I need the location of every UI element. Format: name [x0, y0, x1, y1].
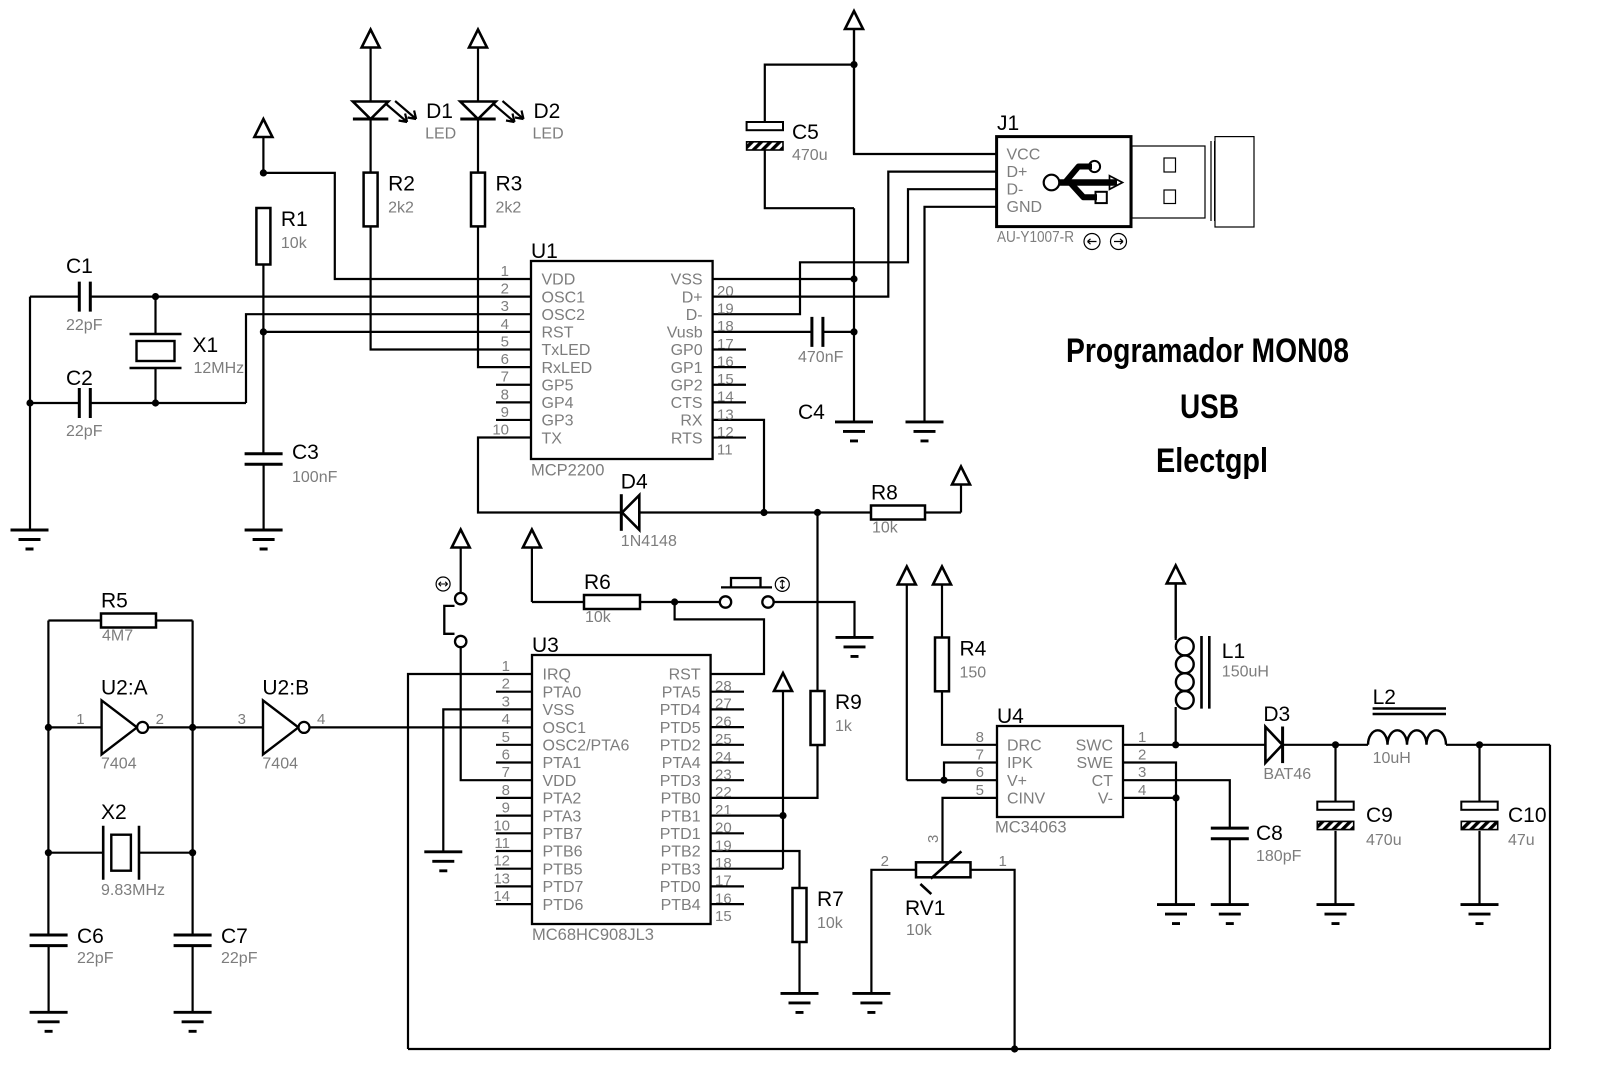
title text: [1066, 332, 1349, 480]
svg-text:TxLED: TxLED: [542, 342, 591, 359]
svg-text:8: 8: [502, 782, 510, 799]
svg-text:D1: D1: [426, 100, 453, 123]
svg-text:18: 18: [715, 855, 732, 872]
wire X1 top lead: [154, 297, 156, 334]
svg-text:C6: C6: [77, 925, 104, 948]
U1 pin 15 (GP1) label: [671, 360, 734, 388]
svg-text:R8: R8: [871, 482, 898, 505]
wire R9 bottom to U3 PTB0 pin 21: [711, 745, 818, 798]
svg-text:10k: 10k: [872, 520, 899, 537]
potentiometer RV1: [881, 835, 1007, 939]
svg-text:11: 11: [494, 835, 510, 852]
wire C10 to ground: [1478, 831, 1480, 905]
U3 pin 14 stub: [496, 903, 532, 905]
J1 left-arrow marker icon: [1084, 234, 1100, 250]
capacitor C1: [66, 255, 103, 334]
U3 pin 11 stub: [496, 850, 532, 852]
U1 pin 18 (D-) label: [686, 307, 734, 335]
capacitor C10 (electrolytic): [1461, 802, 1546, 849]
svg-text:TX: TX: [542, 430, 563, 447]
junction C10 on output node: [1476, 741, 1483, 748]
U1 pin 7 (GP5) label: [501, 369, 574, 395]
svg-text:X1: X1: [193, 334, 219, 357]
U3 pin 13 (PTD7) label: [493, 870, 583, 896]
svg-text:PTB2: PTB2: [661, 844, 701, 861]
connector J1 AU-Y1007-R body: [997, 112, 1131, 246]
svg-text:PTA1: PTA1: [543, 755, 582, 772]
power symbol VCC above R1: [254, 119, 272, 173]
U3 pin 22 (PTD3) label: [660, 773, 732, 801]
svg-text:PTD0: PTD0: [660, 879, 701, 896]
svg-text:PTD4: PTD4: [660, 702, 701, 719]
svg-text:22pF: 22pF: [221, 950, 258, 967]
wire U4 CINV pin 5 to RV1 wiper: [943, 798, 998, 862]
U1 pin 16 (GP0) label: [671, 342, 734, 370]
svg-text:470u: 470u: [1366, 832, 1402, 849]
U1 pin 19 (D+) label: [682, 289, 734, 317]
svg-text:11: 11: [717, 442, 733, 459]
J1 pin D- label: [1007, 182, 1024, 199]
svg-text:6: 6: [502, 747, 510, 764]
wire C4 right plate to ground vertical: [823, 331, 854, 333]
svg-text:D3: D3: [1263, 703, 1290, 726]
ground (C9): [1317, 905, 1355, 924]
svg-text:100nF: 100nF: [292, 469, 338, 486]
U3 pin 9 stub: [496, 814, 532, 816]
svg-text:7: 7: [501, 369, 509, 386]
power symbol VCC above C5/J1: [845, 11, 863, 154]
wire U1 D- pin 18 to J1 D-: [713, 189, 997, 314]
junction X1 top lead on OSC1 net: [152, 293, 159, 300]
junction R1/RST node: [260, 328, 267, 335]
U1 pin 5 (TxLED) label: [501, 333, 591, 359]
wire U2:A input: [48, 726, 101, 728]
U1 pin 14 stub: [713, 384, 746, 386]
wire C9 to ground: [1334, 831, 1336, 905]
svg-text:1: 1: [502, 658, 510, 675]
svg-text:1: 1: [1138, 729, 1146, 746]
U1 pin 6 (RxLED) label: [501, 351, 593, 377]
svg-text:VDD: VDD: [542, 272, 576, 289]
wire C5 positive lead: [765, 65, 854, 122]
svg-text:8: 8: [976, 729, 984, 746]
svg-text:2: 2: [1138, 747, 1146, 764]
wire D2 cathode to R3: [477, 119, 479, 173]
ground (R7): [781, 993, 819, 1012]
wire VCC to R1 top and U1 VDD pin 1: [263, 173, 531, 279]
svg-text:VSS: VSS: [671, 272, 703, 289]
wire U4 CT pin 3 to C8: [1123, 780, 1230, 828]
svg-text:10k: 10k: [817, 915, 844, 932]
svg-text:U2:A: U2:A: [101, 676, 148, 699]
svg-text:USB: USB: [1180, 388, 1239, 426]
svg-text:D-: D-: [1007, 182, 1024, 199]
resistor R8: [871, 482, 925, 537]
wire X2 left lead: [48, 852, 103, 854]
svg-text:13: 13: [717, 406, 734, 423]
J1 USB trident icon: [1044, 161, 1123, 203]
U3 pin 12 stub: [496, 868, 532, 870]
U3 pin 5 (OSC2/PTA6) label: [502, 729, 630, 755]
U3 pin 5 stub: [496, 744, 532, 746]
svg-text:GP1: GP1: [671, 360, 703, 377]
svg-text:PTA2: PTA2: [543, 791, 582, 808]
wire R5 left to U2:A input vertical: [48, 621, 101, 935]
junction X1 bottom lead: [152, 399, 159, 406]
svg-text:CTS: CTS: [671, 395, 703, 412]
capacitor C3: [245, 441, 338, 486]
svg-text:IPK: IPK: [1007, 755, 1033, 772]
capacitor C6: [30, 925, 114, 967]
U1 pin 14 (GP2) label: [671, 377, 734, 405]
svg-text:7404: 7404: [101, 755, 137, 772]
junction RX drop on D4/R8 row: [760, 509, 767, 516]
push button left actuate icon: [436, 577, 450, 591]
svg-text:VSS: VSS: [543, 702, 575, 719]
capacitor C5 (electrolytic): [747, 121, 828, 164]
svg-text:CT: CT: [1092, 773, 1114, 790]
svg-text:180pF: 180pF: [1256, 848, 1302, 865]
svg-text:1k: 1k: [835, 718, 853, 735]
wire R5 right to U2:A output vertical: [156, 621, 193, 935]
svg-text:7404: 7404: [262, 755, 298, 772]
svg-text:4: 4: [1138, 782, 1146, 799]
junction C5 positive on VCC net: [850, 61, 857, 68]
junction U1 VSS row: [850, 275, 857, 282]
svg-text:R5: R5: [101, 590, 128, 613]
svg-text:GP4: GP4: [542, 395, 574, 412]
svg-text:6: 6: [501, 351, 509, 368]
ground (C6): [30, 1012, 68, 1031]
capacitor C9 (electrolytic): [1317, 802, 1401, 849]
junction X2 left lead: [45, 849, 52, 856]
U3 pin 28 (RST) label: [669, 667, 732, 695]
svg-text:PTD2: PTD2: [660, 738, 701, 755]
U3 pin 23 (PTA4) label: [662, 755, 732, 783]
resistor R2: [364, 173, 415, 227]
svg-text:3: 3: [238, 711, 246, 728]
junction U2:A output node: [189, 724, 196, 731]
wire U1 D+ pin 19 to J1 D+: [713, 172, 997, 297]
svg-text:7: 7: [502, 764, 510, 781]
wire R6 right to push button: [640, 601, 720, 603]
svg-text:Electgpl: Electgpl: [1156, 442, 1268, 480]
U3 pin 26 stub: [711, 708, 744, 710]
svg-text:DRC: DRC: [1007, 738, 1042, 755]
svg-text:10: 10: [492, 422, 509, 439]
svg-text:2: 2: [501, 281, 509, 298]
svg-text:3: 3: [501, 298, 509, 315]
ground (C3): [245, 530, 283, 549]
U3 pin 17 (PTB3) label: [661, 861, 732, 889]
junction SWE/V- tie: [1172, 794, 1179, 801]
wire VCC arrow to U4 V+ pin 6: [907, 779, 997, 781]
inductor L1: [1176, 584, 1269, 709]
wire R8 right to VCC arrow: [925, 511, 961, 513]
svg-text:PTB0: PTB0: [661, 791, 701, 808]
svg-text:2: 2: [502, 676, 510, 693]
U4 pin 4 (V-) label: [1098, 782, 1146, 808]
svg-text:13: 13: [493, 870, 510, 887]
svg-text:OSC2: OSC2: [542, 307, 586, 324]
svg-text:RST: RST: [669, 667, 701, 684]
U3 pin 27 stub: [711, 691, 744, 693]
U3 pin 24 stub: [711, 744, 744, 746]
svg-text:AU-Y1007-R: AU-Y1007-R: [997, 229, 1074, 246]
svg-text:14: 14: [493, 888, 510, 905]
svg-text:R2: R2: [388, 173, 415, 196]
U3 pin 1 (IRQ) label: [502, 658, 571, 684]
svg-text:PTA0: PTA0: [543, 684, 582, 701]
wire row node down to R9 top: [816, 513, 818, 692]
wire U4 SWC pin 1 to D3 anode: [1123, 744, 1265, 746]
LED D1: [353, 100, 456, 143]
svg-text:10k: 10k: [281, 235, 308, 252]
svg-text:PTB7: PTB7: [543, 826, 583, 843]
diode D3: [1263, 703, 1311, 783]
wire X1 bottom lead: [154, 368, 156, 403]
wire U1 TX pin 10 to D4 cathode: [478, 438, 621, 513]
wire J1 GND to ground: [925, 207, 997, 422]
U1 pin 11 (RTS) label: [671, 430, 733, 458]
power symbol VCC above R4: [933, 567, 951, 638]
svg-text:R9: R9: [835, 691, 862, 714]
U3 pin 7 (VDD) label: [502, 764, 577, 790]
wire C10 top lead: [1478, 745, 1480, 802]
svg-text:150uH: 150uH: [1222, 664, 1269, 681]
svg-text:U3: U3: [532, 634, 559, 657]
wire L2 right to output corner: [1446, 744, 1550, 746]
svg-text:PTA5: PTA5: [662, 684, 701, 701]
ground (C10): [1461, 905, 1499, 924]
U1 pin 15 stub: [713, 366, 746, 368]
inverter U2:B: [238, 676, 326, 772]
svg-text:U4: U4: [997, 705, 1024, 728]
svg-text:22pF: 22pF: [66, 317, 103, 334]
svg-text:X2: X2: [101, 801, 127, 824]
svg-text:PTB5: PTB5: [543, 861, 583, 878]
J1 pin D+ label: [1007, 164, 1028, 181]
svg-text:2: 2: [156, 711, 164, 728]
junction R9 riser on D4/R8 row: [814, 509, 821, 516]
resistor R5: [101, 590, 156, 645]
svg-text:L2: L2: [1373, 686, 1396, 709]
wire U4 SWE pin 2 tie to V-: [1123, 763, 1176, 798]
ground (U4 V-): [1157, 905, 1195, 924]
U3 pin 23 stub: [711, 761, 744, 763]
U4 pin 3 (CT) label: [1092, 764, 1147, 790]
svg-text:U2:B: U2:B: [262, 676, 309, 699]
svg-text:PTD3: PTD3: [660, 773, 701, 790]
U1 pin 8 stub: [496, 401, 531, 403]
svg-text:GP0: GP0: [671, 342, 703, 359]
resistor R7: [793, 888, 844, 942]
wire U2:B output to U3 OSC1 pin 4: [310, 726, 532, 728]
svg-text:Programador MON08: Programador MON08: [1066, 332, 1349, 370]
svg-text:C7: C7: [221, 925, 248, 948]
wire C6 to ground: [47, 946, 49, 1013]
U3 pin 27 (PTA5) label: [662, 684, 732, 712]
svg-text:D-: D-: [686, 307, 703, 324]
svg-text:470nF: 470nF: [798, 349, 844, 366]
U3 pin 16 (PTD0) label: [660, 879, 732, 907]
svg-text:R3: R3: [496, 173, 523, 196]
U3 pin 18 (PTB2) label: [661, 844, 732, 872]
U4 pin 6 (V+) label: [976, 764, 1027, 790]
svg-text:12: 12: [493, 853, 510, 870]
U1 pin 10 (TX) label: [492, 422, 562, 448]
svg-text:GP2: GP2: [671, 377, 703, 394]
svg-text:10k: 10k: [585, 609, 612, 626]
wire OSC2 net riser to U1 pin 3: [246, 314, 531, 403]
U4 pin 7 (IPK) label: [976, 747, 1033, 773]
U1 pin 1 (VDD) label: [501, 263, 576, 289]
push button right (reset): [720, 578, 774, 608]
svg-text:OSC1: OSC1: [542, 289, 586, 306]
power symbol VCC above D1: [362, 30, 380, 102]
svg-text:VCC: VCC: [1007, 146, 1041, 163]
junction RV1 pin1 on bus: [1011, 1045, 1018, 1052]
J1 pin GND label: [1007, 199, 1043, 216]
IC U3 MC68HC908JL3 body: [532, 634, 711, 944]
svg-text:C9: C9: [1366, 804, 1393, 827]
U3 pin 6 stub: [496, 761, 532, 763]
wire VSS/C4 vertical to ground: [853, 208, 855, 422]
power symbol VCC above L1: [1167, 565, 1185, 638]
inverter U2:A: [76, 676, 164, 772]
svg-text:3: 3: [502, 693, 510, 710]
svg-text:D2: D2: [534, 100, 561, 123]
resistor R9: [811, 691, 862, 745]
U3 pin 6 (PTA1) label: [502, 747, 582, 773]
svg-text:22pF: 22pF: [66, 423, 103, 440]
U3 pin 9 (PTA3) label: [502, 800, 582, 826]
svg-text:RV1: RV1: [905, 897, 945, 920]
svg-text:21: 21: [715, 802, 732, 819]
U4 pin 8 (DRC) label: [976, 729, 1042, 755]
svg-text:1: 1: [999, 853, 1007, 870]
wire U1 Vusb pin 17 to C4: [713, 331, 812, 333]
svg-text:1N4148: 1N4148: [621, 533, 677, 550]
svg-text:C4: C4: [798, 401, 825, 424]
U1 pin 12 (RX) label: [680, 413, 733, 441]
U3 pin 15 stub: [711, 903, 744, 905]
svg-text:RxLED: RxLED: [542, 360, 593, 377]
wire C2 row: OSC2 net lower run: [30, 402, 246, 404]
capacitor C2: [66, 367, 103, 440]
svg-text:D+: D+: [682, 289, 703, 306]
wire L1 bottom lead: [1175, 707, 1177, 745]
svg-text:U1: U1: [531, 240, 558, 263]
J1 plug drawing (USB A plug): [1132, 137, 1254, 227]
U3 pin 24 (PTD2) label: [660, 738, 732, 766]
U3 pin 8 stub: [496, 797, 532, 799]
svg-text:4: 4: [502, 711, 510, 728]
svg-text:C3: C3: [292, 441, 319, 464]
svg-text:18: 18: [717, 318, 734, 335]
wire OSC1 net: C1 to X1 to U1 pin 2: [30, 296, 531, 298]
wire D1 cathode to R2: [370, 119, 372, 173]
U3 pin 3 (VSS) label: [502, 693, 575, 719]
U1 pin 4 (RST) label: [501, 316, 574, 342]
svg-text:9: 9: [502, 800, 510, 817]
svg-text:C5: C5: [792, 121, 819, 144]
svg-text:BAT46: BAT46: [1263, 766, 1311, 783]
svg-text:RTS: RTS: [671, 430, 703, 447]
svg-text:CINV: CINV: [1007, 791, 1046, 808]
U3 pin 16 stub: [711, 885, 744, 887]
svg-text:Vusb: Vusb: [667, 325, 703, 342]
svg-text:7: 7: [976, 747, 984, 764]
svg-text:47u: 47u: [1508, 832, 1535, 849]
wire RST node to U1 pin 4: [263, 331, 531, 333]
svg-text:1: 1: [501, 263, 509, 280]
ground (U3 VSS): [424, 852, 462, 871]
svg-text:6: 6: [976, 764, 984, 781]
svg-text:R4: R4: [960, 638, 987, 661]
U3 pin 8 (PTA2) label: [502, 782, 582, 808]
junction C9 on output node: [1332, 741, 1339, 748]
power symbol VCC above U4 V+: [898, 567, 916, 781]
wire VCC arrow down to J1 VCC pin: [854, 29, 997, 154]
svg-text:C8: C8: [1256, 822, 1283, 845]
wire RV1 pin 1 to bottom bus: [971, 870, 1015, 1049]
resistor R4: [935, 638, 987, 692]
U3 pin 19 (PTD1) label: [660, 826, 732, 854]
svg-text:R6: R6: [584, 571, 611, 594]
junction R6 / RST net: [671, 598, 678, 605]
power symbol VCC above R6: [523, 530, 541, 603]
svg-text:MC68HC908JL3: MC68HC908JL3: [532, 926, 654, 944]
J1 pin VCC label: [1007, 146, 1041, 163]
svg-text:GP5: GP5: [542, 377, 574, 394]
U3 pin 11 (PTB6) label: [494, 835, 582, 861]
capacitor C7: [174, 925, 258, 967]
junction IPK/V+ tie: [940, 777, 947, 784]
svg-text:5: 5: [502, 729, 510, 746]
wire left button lower contact to U3 VDD pin 7: [461, 647, 532, 780]
svg-text:L1: L1: [1222, 640, 1245, 663]
U3 pin 12 (PTB5) label: [493, 853, 582, 879]
U1 pin 16 stub: [713, 348, 746, 350]
power symbol VCC above D2: [469, 30, 487, 102]
U3 pin 21 (PTB0) label: [661, 791, 732, 819]
svg-text:15: 15: [715, 908, 732, 925]
svg-text:C2: C2: [66, 367, 93, 390]
U1 pin 11 stub: [713, 436, 746, 438]
svg-text:R7: R7: [817, 888, 844, 911]
wire R4 bottom to U4 DRC pin 8: [942, 691, 997, 745]
svg-text:12MHz: 12MHz: [194, 360, 245, 377]
svg-text:PTB4: PTB4: [661, 897, 701, 914]
svg-text:D+: D+: [1007, 164, 1028, 181]
svg-text:2k2: 2k2: [388, 200, 414, 217]
wire C8 to ground: [1229, 839, 1231, 905]
junction Vusb/C4 row: [850, 328, 857, 335]
ground (RV1 pin 2): [852, 993, 890, 1012]
wire R1 bottom to C3: [262, 265, 264, 455]
junction at R1 top / VCC: [260, 169, 267, 176]
svg-text:10: 10: [493, 817, 510, 834]
wire U3 VSS pin 3 to ground: [443, 709, 532, 851]
svg-text:PTB3: PTB3: [661, 861, 701, 878]
svg-text:OSC1: OSC1: [543, 720, 587, 737]
power symbol VCC right of R8: [952, 467, 970, 513]
U1 pin 3 (OSC2) label: [501, 298, 586, 324]
wire U2:A output to U2:B input: [148, 726, 263, 728]
wire C7 to ground: [192, 946, 194, 1013]
wire U3 PTB2 pin 19 to R7: [711, 851, 800, 888]
